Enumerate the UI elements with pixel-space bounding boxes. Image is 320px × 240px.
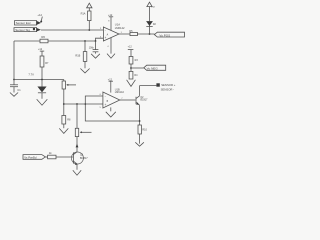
capacitor C1 [10,80,21,93]
wire to U1B non-inverting input [64,103,103,105]
svg-text:Vo POS: Vo POS [159,33,170,37]
resistor R1B [75,52,86,62]
diode D1 [37,80,46,99]
power arrow +12 top [87,3,92,8]
resistor 1k [48,151,56,159]
resistor R8 [62,116,71,129]
svg-text:R6: R6 [41,35,45,39]
node junction Vo NEG [130,67,132,69]
ground under C2 [91,54,100,58]
node junction R10 [139,120,141,122]
U1B V+ supply [108,79,113,93]
pin square SENSOR+ [156,83,159,86]
net label Vo POS [154,32,184,37]
op-amp U1A [100,22,125,41]
divider +12 flag [128,46,134,57]
ground under D1 [37,99,48,105]
svg-text:LM6142: LM6142 [115,91,125,94]
svg-text:7.7V: 7.7V [28,72,34,76]
resistor R10 [138,125,147,144]
net label Vo NEG [144,65,166,70]
node crossing [85,103,87,105]
power flag +12 U1A [108,14,113,22]
wire to SENSOR+ [140,85,157,87]
node junction D1 [41,79,43,81]
ground under Q1 [73,170,81,175]
resistor R7 [40,51,49,79]
trimmer RT2 [75,104,91,152]
svg-text:+12: +12 [128,46,133,49]
wire R1A vertical [88,8,90,30]
svg-text:-: - [105,95,106,99]
U1A V- supply wire [110,38,112,54]
wire 7.7V node horizontal [14,79,64,81]
svg-text:Sensor Sig: Sensor Sig [15,28,30,32]
resistor R5 [129,30,137,36]
node junction U1B plus input [63,103,65,105]
node junction pot2 [76,103,78,105]
ground under R10 [135,142,144,146]
svg-text:LM6142: LM6142 [115,26,125,30]
svg-text:100n: 100n [89,47,95,50]
svg-text:BC817: BC817 [80,157,88,160]
svg-text:BC817: BC817 [140,100,148,102]
svg-text:R1A: R1A [81,13,86,16]
transistor Q2 [136,86,148,126]
ground under R1B [80,69,89,73]
node junction R1B [84,40,86,42]
wire R1B branch [84,41,86,68]
node junction C1 [13,79,15,81]
svg-text:+12: +12 [38,48,43,51]
U1A V+ supply wire [110,17,112,31]
diode D2 [146,21,156,34]
net label Sensor Exc [15,21,42,26]
U1A output wire [119,33,155,35]
power flag +12 R7 [38,48,44,51]
net label Sensor Sig [14,28,41,32]
power arrow +12 top right [147,2,156,21]
node junction C2 [95,40,97,42]
resistor R1A [81,11,91,21]
svg-text:-: - [105,28,106,32]
U1B V- supply [110,107,112,111]
svg-text:SENSOR -: SENSOR - [161,87,175,91]
svg-text:Vo NEG: Vo NEG [147,66,159,70]
svg-text:+12: +12 [37,13,42,17]
svg-text:Sensor Exc: Sensor Exc [16,21,32,25]
transistor Q1 [71,152,88,170]
wire U1B inverting input feedback [85,96,139,121]
wire net2 horizontal [14,40,96,42]
node junction R1A [88,29,90,31]
capacitor C2 [89,41,99,54]
ground under C1 [10,93,18,97]
wire to Q1 base [56,156,73,158]
resistor R3 [129,57,138,72]
op-amp U1B [100,88,125,109]
resistor R6 [40,35,48,43]
ground under U1B [106,112,116,117]
svg-text:R1B: R1B [75,55,80,58]
ground under R8 [59,128,68,133]
net label Vs PwrBd [23,155,45,160]
wire jog to U1A non-inverting input [96,38,104,41]
svg-text:SENSOR +: SENSOR + [161,83,176,87]
ground arrow under R4 [127,80,136,87]
U1B output wire [120,99,136,101]
trimmer RT1 [62,80,76,116]
ground arrow under U1A [107,54,115,59]
power flag +12 at label [37,13,42,23]
wire left column vertical [13,41,15,80]
resistor R4 [129,71,138,79]
svg-text:Vs PwrBd: Vs PwrBd [24,156,37,160]
node junction D2 [149,33,151,35]
svg-text:+: + [105,36,107,40]
svg-text:R10: R10 [142,129,147,132]
wire net1 to U1A inverting input [41,29,104,31]
arrow on collector wire [76,144,79,148]
wire to Vo NEG label [131,67,144,69]
svg-text:U1A: U1A [115,22,120,26]
svg-text:+: + [105,103,107,107]
wire to 1k [45,156,47,158]
